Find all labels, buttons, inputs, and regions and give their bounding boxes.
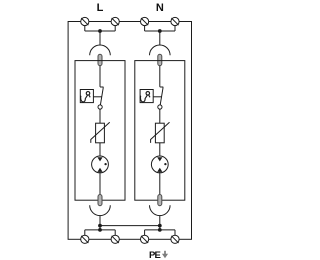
gas filling dot L	[104, 163, 106, 165]
gas discharge tube circle L branch	[92, 156, 109, 173]
junction node on N input bar	[158, 29, 162, 33]
wire stub from terminal L1 down to bar	[84, 26, 86, 31]
wire from socket to PE junction L	[99, 216, 101, 230]
wire from switch to varistor N	[159, 109, 161, 123]
wire from varistor to spark gap L	[99, 143, 101, 158]
wire stub down to bottom terminal Na	[144, 230, 146, 235]
switch hinge contact circle N	[158, 105, 162, 109]
spark gap upper electrode arrow N	[157, 157, 162, 161]
wire from pin to disconnector L	[99, 66, 101, 87]
fixed contact tick of thermal disconnector switch L	[100, 86, 104, 88]
junction node N on PE bus	[158, 224, 162, 228]
lower plug pin N branch	[158, 195, 162, 206]
lower plug pin L branch	[98, 195, 102, 206]
thermal release eye ring N	[146, 92, 150, 96]
varistor RV body N branch	[155, 123, 164, 143]
protection module box N branch	[135, 61, 185, 201]
thermal release tail stroke N	[149, 95, 150, 97]
thermal release eye ring L	[86, 92, 90, 96]
wire stub from terminal N1 down to bar	[144, 26, 146, 31]
thermal release tail stroke L	[89, 95, 90, 97]
lower plug-in socket contact (arc) L branch	[90, 205, 111, 215]
thermal release hook symbol N	[140, 95, 147, 102]
wire from spark gap to lower pin N	[159, 172, 161, 195]
PE equipotential bus between branches	[100, 225, 160, 227]
varistor diagonal stroke with foot N	[151, 122, 170, 143]
upper plug-in socket contact (arc) L branch	[90, 45, 111, 55]
varistor RV body L branch	[96, 123, 105, 143]
switch hinge contact circle L	[98, 105, 102, 109]
upper plug pin N branch	[158, 54, 162, 65]
wire stub down to bottom terminal Nb	[174, 230, 176, 235]
switch blade of thermal disconnector N	[160, 87, 163, 105]
wire from spark gap to lower pin L	[99, 172, 101, 195]
screw terminal PE4	[171, 235, 179, 243]
mechanical link from thermal box to blade N	[153, 96, 161, 98]
junction node N on output bar	[158, 228, 162, 232]
wire from L bar to plug socket	[99, 31, 101, 45]
svg-text:N: N	[156, 2, 164, 14]
gas filling dot N	[164, 163, 166, 165]
screw terminal N1	[141, 17, 149, 25]
spark gap upper electrode arrow L	[97, 157, 102, 161]
wire from N bar to plug socket	[159, 31, 161, 45]
thermal release box N	[140, 90, 153, 103]
wire from varistor to spark gap N	[159, 143, 161, 158]
gas discharge tube circle N branch	[151, 156, 168, 173]
wire stub down to bottom terminal La	[84, 230, 86, 235]
screw terminal L2	[111, 17, 119, 25]
upper plug pin L branch	[98, 54, 102, 65]
mechanical link from thermal box to blade L	[93, 96, 101, 98]
PE earth arrow	[162, 251, 168, 258]
wire stub from terminal L2 down to bar	[114, 26, 116, 31]
junction node L on PE bus	[98, 224, 102, 228]
wire stub from terminal N2 down to bar	[174, 26, 176, 31]
screw terminal L1	[81, 17, 89, 25]
spark gap lower electrode arrow N	[157, 168, 162, 172]
wire stub down to bottom terminal Lb	[114, 230, 116, 235]
thermal release hook symbol L	[81, 95, 88, 102]
protection module box L branch	[75, 61, 125, 201]
junction node L on output bar	[98, 228, 102, 232]
screw terminal N2	[171, 17, 179, 25]
svg-text:L: L	[97, 2, 104, 14]
lower plug-in socket contact (arc) N branch	[150, 205, 171, 215]
switch blade of thermal disconnector L	[100, 87, 103, 105]
wire bar joining N terminals	[145, 30, 175, 32]
wire from pin to disconnector N	[159, 66, 161, 87]
wire from socket to PE junction N	[159, 216, 161, 230]
varistor diagonal stroke with foot L	[91, 122, 110, 143]
svg-text:PE: PE	[149, 250, 161, 260]
thermal release box L	[80, 90, 93, 103]
screw terminal PE2	[111, 235, 119, 243]
wire from switch to varistor L	[99, 109, 101, 123]
fixed contact tick of thermal disconnector switch N	[160, 86, 164, 88]
wire bar joining bottom terminals N side	[145, 229, 175, 231]
wire bar joining L terminals	[85, 30, 115, 32]
upper plug-in socket contact (arc) N branch	[150, 45, 171, 55]
wire bar joining bottom terminals L side	[85, 229, 115, 231]
screw terminal PE1	[81, 235, 89, 243]
screw terminal PE3	[141, 235, 149, 243]
junction node on L input bar	[98, 29, 102, 33]
device enclosure outline	[68, 22, 191, 240]
spark gap lower electrode arrow L	[97, 168, 102, 172]
